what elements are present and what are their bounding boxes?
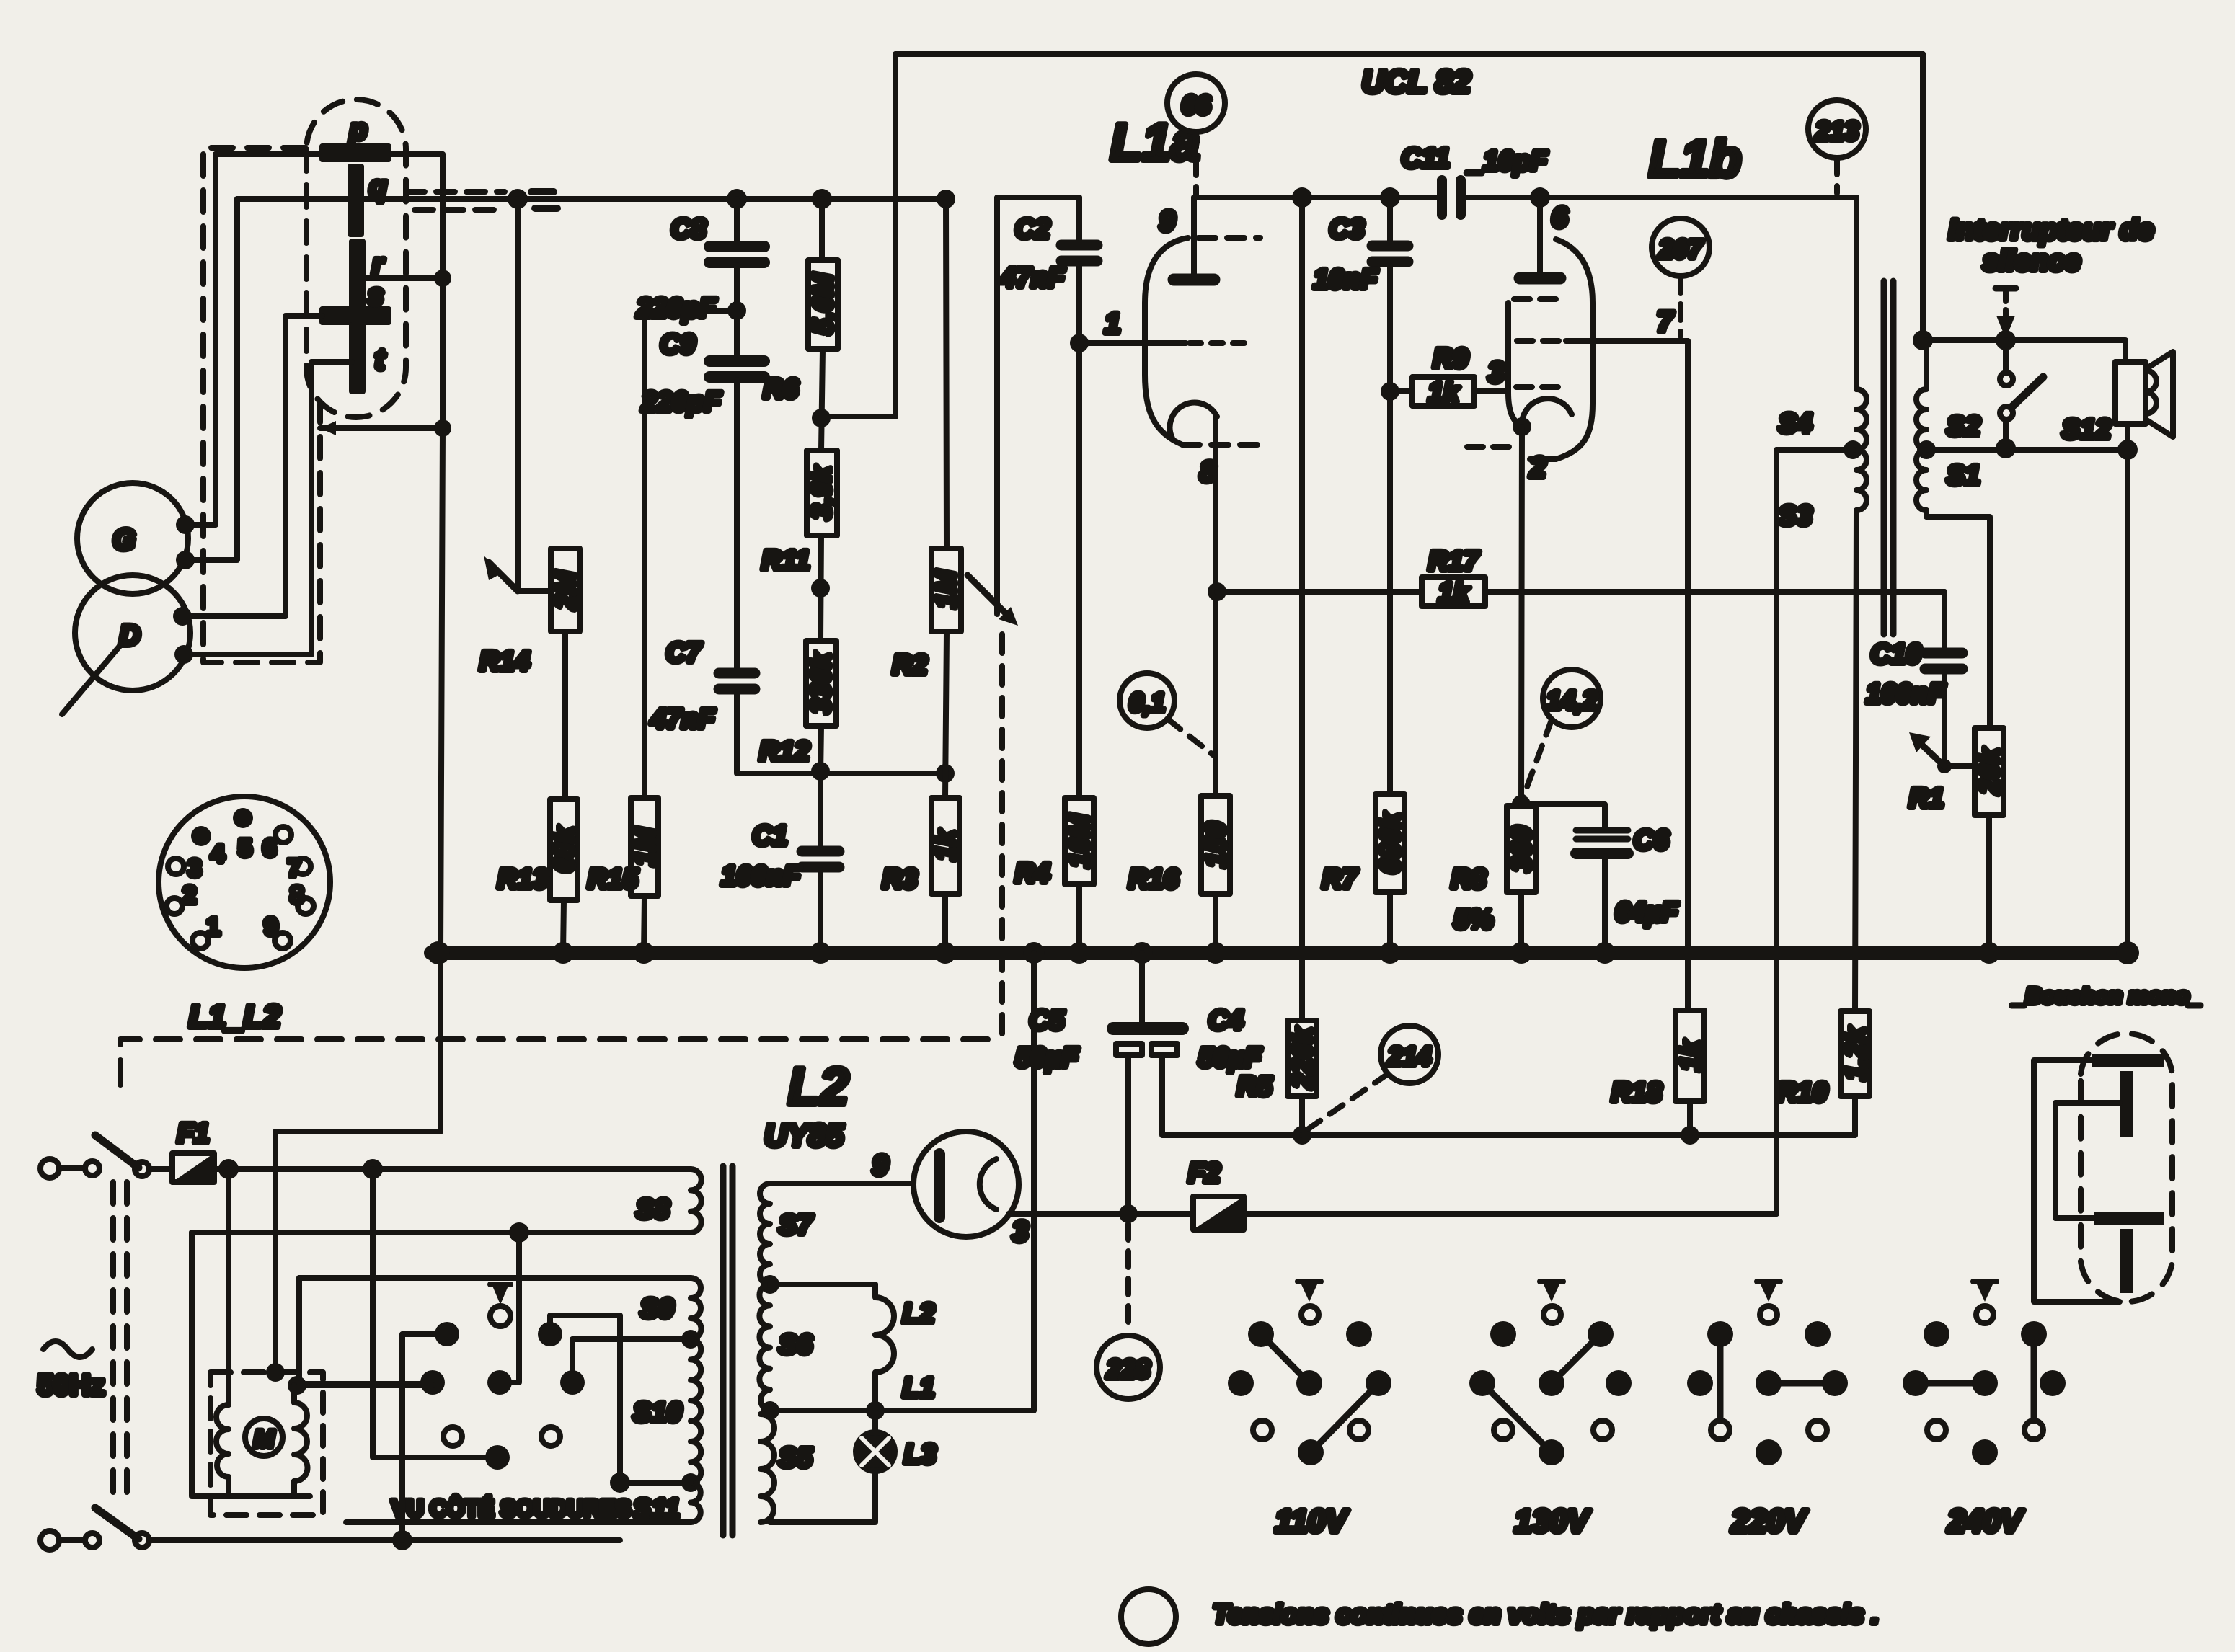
junction H2c-C3 (1380, 187, 1400, 208)
shield arrowhead (320, 421, 336, 435)
capacitor C4 50uF (1151, 1005, 1302, 1135)
junction R5 on B+ line (1293, 1126, 1311, 1145)
svg-text:9: 9 (265, 913, 278, 941)
link pad over to S11 tap (550, 1315, 691, 1483)
wire t lead (184, 362, 352, 654)
svg-text:3: 3 (1012, 1216, 1028, 1248)
wire R5 to C4 line (1299, 1096, 1305, 1135)
cartridge contact s (322, 279, 389, 322)
dashed link R2 to chassis (999, 634, 1005, 1038)
svg-text:8: 8 (291, 881, 304, 909)
jack circle D (75, 575, 190, 690)
junction switch bottom (1996, 438, 2016, 458)
svg-text:C5: C5 (1030, 1005, 1065, 1036)
junction heater return bus (1023, 942, 1045, 964)
svg-text:130V: 130V (1515, 1504, 1591, 1539)
mains cable dashed pair (113, 1182, 127, 1503)
svg-text:C9: C9 (660, 329, 696, 360)
wire S5 bottom (770, 1470, 875, 1522)
svg-text:1,2k: 1,2k (1841, 1026, 1871, 1080)
svg-text:2M: 2M (551, 570, 581, 610)
svg-text:C2: C2 (1015, 214, 1050, 244)
wire ground trunk vertical (441, 154, 443, 953)
svg-text:5%: 5% (1454, 905, 1494, 935)
junction R4 bus (1068, 942, 1090, 964)
svg-text:20k: 20k (1975, 747, 2005, 794)
wire R1 to bus (1986, 815, 1992, 953)
wire B+ top line right vertical (1920, 54, 1926, 340)
svg-text:R15: R15 (588, 864, 639, 894)
svg-text:7: 7 (1657, 306, 1674, 338)
mains switch blade bottom (95, 1508, 138, 1539)
shield dashed left vertical (203, 148, 320, 662)
resistor R17 1k (horizontal) (1217, 546, 1485, 608)
junction R12-C1-R3 (811, 762, 830, 781)
svg-text:S9: S9 (640, 1294, 673, 1324)
svg-text:2: 2 (183, 881, 197, 909)
svg-text:360: 360 (1507, 826, 1537, 871)
wire screen pin7 down (1685, 341, 1691, 1011)
winding S6 (759, 1284, 813, 1411)
wire R14 to R13 (562, 631, 568, 799)
junction R17 tap on cathode (1208, 582, 1226, 601)
winding S2 (1916, 340, 1980, 450)
svg-text:F1: F1 (177, 1119, 209, 1149)
capacitor C3 10nF (1314, 197, 1408, 391)
svg-text:S4: S4 (1779, 409, 1812, 439)
wire silence switch top line (1923, 340, 2125, 362)
voltage selector 110V (1228, 1282, 1391, 1539)
potentiometer R1 20k (1909, 728, 2005, 815)
selector panel pads and links (297, 1233, 691, 1540)
svg-text:0,1: 0,1 (1129, 688, 1165, 717)
motor M (211, 1363, 323, 1515)
svg-text:100nF: 100nF (721, 861, 802, 892)
resistor R6 5,6M (764, 199, 838, 404)
svg-text:64µF: 64µF (1615, 897, 1679, 928)
svg-text:S6: S6 (779, 1330, 813, 1360)
power transformer core (723, 1166, 733, 1535)
junction G top (176, 515, 195, 534)
svg-text:6: 6 (263, 835, 277, 862)
wire R7 to bus (1387, 892, 1393, 953)
svg-text:C7: C7 (666, 638, 702, 668)
svg-text:5: 5 (239, 835, 252, 862)
svg-text:s: s (368, 279, 384, 311)
svg-text:207: 207 (1658, 234, 1704, 264)
mains terminals bottom (40, 1531, 149, 1550)
junction S4-S3 tap (1844, 440, 1862, 459)
wire R2 wiper to C2 line (997, 197, 1079, 614)
link pad to bottom return (402, 1334, 447, 1540)
junction switch top (1996, 330, 2016, 350)
winding S11 (633, 1483, 701, 1524)
wire R12 to C1 junction (820, 726, 821, 776)
link pad to S9 tap (572, 1339, 691, 1382)
winding S7 (secondary top) (760, 1184, 813, 1284)
fuse F2 (1188, 1158, 1244, 1230)
svg-text:C4: C4 (1208, 1005, 1244, 1036)
svg-text:S10: S10 (633, 1398, 682, 1428)
wire feedback from top line H1 (821, 54, 1923, 417)
dashed chassis boundary L1-L2 (120, 1039, 1002, 1085)
wire A (grid input line) (237, 196, 946, 202)
svg-text:_Bouchon mono_: _Bouchon mono_ (2011, 983, 2202, 1008)
junction H2c-R5 (1292, 187, 1312, 208)
cartridge capsule (pickup, dashed envelope) (306, 99, 406, 417)
wire s lead (182, 316, 322, 616)
wire A from G bottom (185, 199, 237, 560)
svg-text:1k: 1k (931, 829, 961, 861)
voltage circle 66 (1167, 74, 1225, 132)
junction pentode plate pin6 (1530, 187, 1550, 208)
lamp L1 (875, 1335, 934, 1411)
cartridge contact t (352, 325, 386, 391)
svg-text:1k: 1k (1428, 378, 1460, 408)
svg-text:7: 7 (288, 855, 301, 882)
fuse F1 (149, 1119, 214, 1182)
ground bus (chassis) (431, 946, 2130, 960)
capacitor C7 47nF (650, 638, 820, 773)
svg-text:C3: C3 (1329, 214, 1365, 244)
wire mains bottom return (149, 1537, 620, 1543)
svg-text:5,6M: 5,6M (808, 272, 838, 334)
svg-text:R10: R10 (1777, 1078, 1828, 1108)
wire R6 to R11 junction (821, 349, 823, 450)
svg-text:240V: 240V (1947, 1504, 2024, 1539)
svg-text:R12: R12 (759, 737, 810, 767)
junction bus left end (427, 941, 450, 964)
svg-text:R8: R8 (1451, 864, 1487, 894)
junction R1 bus (1978, 942, 2000, 964)
resistor R13 68k (497, 799, 580, 900)
wire S8 bottom (192, 1230, 691, 1235)
winding S9 (640, 1278, 701, 1339)
potentiometer R2 1M (volume) (893, 190, 1018, 680)
wire R13 to bus (563, 900, 564, 953)
svg-text:R1: R1 (1909, 783, 1944, 814)
resistor R11 3,9k (762, 450, 837, 576)
svg-text:G: G (112, 524, 135, 556)
svg-text:R6: R6 (764, 374, 799, 404)
voltage circle 0,1 (1120, 673, 1174, 728)
cartridge contact q (350, 166, 386, 234)
svg-text:2: 2 (1529, 452, 1546, 484)
capacitor C11 10pF (series in plate line) (1402, 143, 1549, 215)
junction C8-C9 (727, 301, 746, 320)
svg-text:S12: S12 (2062, 414, 2111, 445)
wire junction to R3 top (820, 771, 945, 776)
wire shield drop from A junction (515, 199, 521, 591)
svg-text:R9: R9 (1433, 344, 1469, 374)
voltage selector 240V (1903, 1282, 2066, 1539)
resistor R16 150 (1128, 796, 1231, 894)
junction S2-S1 tap (1917, 440, 1936, 459)
junction A-C8 (727, 189, 747, 209)
jack circle G (77, 483, 188, 594)
wire S9 top (299, 1275, 691, 1281)
svg-text:C6: C6 (1634, 825, 1669, 856)
svg-text:1k: 1k (1438, 578, 1470, 608)
resistor R15 1M (588, 798, 660, 896)
svg-text:C11: C11 (1402, 143, 1450, 174)
svg-text:1M: 1M (931, 569, 962, 608)
wire S9 top corner down to motor line (299, 1278, 433, 1385)
dashed lead 14,2 (1523, 720, 1552, 799)
svg-text:R7: R7 (1322, 864, 1358, 894)
junction R15 bus (633, 942, 655, 964)
junction S8-selector (509, 1222, 529, 1243)
wire solid trunk to G top (185, 154, 216, 525)
lamp L2 (875, 1284, 934, 1335)
resistor R10 1,2k (1777, 1011, 1871, 1135)
svg-text:10nF: 10nF (1314, 265, 1378, 295)
svg-text:UY85: UY85 (764, 1118, 844, 1153)
svg-text:L1: L1 (903, 1373, 934, 1403)
junction cathode R8 C6 (1512, 795, 1531, 814)
wire UY85 cathode to F2 and S4 tap (1009, 1211, 1776, 1217)
junction S10-S11 tap (681, 1473, 700, 1492)
wire secondary tap to speaker bottom (1926, 447, 2128, 453)
wire shield stub to trunk (320, 425, 443, 431)
junction R13 bus (552, 942, 574, 964)
svg-text:Interrupteur de: Interrupteur de (1949, 214, 2154, 246)
wire heater return (770, 953, 1034, 1411)
wire R2 to R3 (945, 631, 947, 798)
junction C5 bus (1131, 942, 1153, 964)
svg-text:R3: R3 (882, 864, 918, 894)
svg-text:R13: R13 (497, 864, 548, 894)
svg-text:L1a: L1a (1110, 114, 1200, 172)
svg-text:R11: R11 (762, 546, 810, 576)
junction R3 bus (934, 942, 956, 964)
cartridge contact p (322, 114, 389, 159)
switch S12 (interrupteur) (2000, 340, 2111, 448)
junction motor right winding (288, 1376, 306, 1395)
legend circle (1121, 1589, 1176, 1644)
junction R2-R3 (936, 764, 955, 783)
svg-text:t: t (375, 344, 386, 376)
arrow T to switch (1996, 288, 2016, 339)
voltage circle 228 (1097, 1336, 1160, 1399)
junction R6-R11 (feedback entry) (812, 409, 831, 427)
svg-text:6: 6 (1552, 202, 1568, 234)
junction link S11 (610, 1473, 630, 1493)
voltage circle 214 (1381, 1026, 1438, 1083)
svg-text:47nF: 47nF (650, 704, 716, 734)
junction R7 bus (1379, 942, 1401, 964)
junction S6-S5 tap (761, 1401, 779, 1420)
junction D top (173, 607, 192, 626)
svg-text:213: 213 (1815, 116, 1859, 146)
capacitor C6 64uF (electrolytic) (1521, 804, 1679, 953)
mains terminals top (40, 1159, 172, 1178)
junction top line S2 (1913, 330, 1933, 350)
junction R18 on B+ line (1681, 1126, 1699, 1145)
capacitor C1 100nF (721, 776, 839, 953)
junction S7-S6 tap (761, 1275, 779, 1294)
svg-text:UCL 82: UCL 82 (1362, 64, 1471, 99)
wire S4S3 tap to F2 line (1776, 450, 1853, 1214)
dashed lead 0,1 (1168, 719, 1216, 757)
svg-text:9: 9 (1159, 205, 1176, 237)
wire R8 to bus (1518, 892, 1524, 953)
svg-text:S8: S8 (636, 1194, 670, 1225)
svg-text:S7: S7 (779, 1210, 813, 1240)
wire motor feed down (226, 1169, 231, 1405)
junction F1-selector (363, 1159, 383, 1179)
svg-text:220V: 220V (1731, 1504, 1808, 1539)
svg-text:9: 9 (872, 1150, 889, 1181)
svg-text:S5: S5 (779, 1443, 813, 1473)
svg-text:66: 66 (1182, 90, 1211, 120)
wire R5 plate feed (down to R5) (1299, 197, 1305, 1021)
voltage circle 14,2 (1543, 670, 1601, 727)
wire selector feed down (373, 1169, 497, 1457)
wire R3 to bus (942, 894, 948, 953)
svg-text:S2: S2 (1947, 412, 1980, 442)
resistor R9 1k (horizontal) (1390, 344, 1508, 408)
arrow to common (490, 1306, 510, 1326)
output transformer core (1884, 281, 1893, 634)
wire F1 line to primary (214, 1166, 691, 1172)
junction C2 - grid pin1 (1070, 334, 1089, 352)
svg-text:R16: R16 (1128, 864, 1180, 894)
svg-text:silence: silence (1983, 245, 2081, 277)
svg-text:_10pF: _10pF (1466, 146, 1549, 177)
junction t-stub-trunk (434, 419, 451, 437)
junction R16 bus (1205, 942, 1226, 964)
svg-text:50µF: 50µF (1015, 1043, 1079, 1073)
resistor R18 1k (1611, 1011, 1706, 1135)
winding S10 (633, 1339, 701, 1483)
cartridge contact r (352, 241, 385, 308)
svg-text:R5: R5 (1237, 1072, 1273, 1102)
wire R11 to R12 (820, 536, 821, 641)
dashed lead 213 (1834, 159, 1840, 193)
svg-text:220k: 220k (1288, 1026, 1318, 1089)
wire R17 to C10 (1485, 589, 1944, 595)
link S8 junction down to pad (500, 1233, 519, 1382)
tube socket pin diagram (159, 796, 330, 968)
junction C5 on HT line (1119, 1204, 1138, 1223)
wire speaker return down (2125, 424, 2130, 953)
svg-text:10M: 10M (1065, 814, 1095, 868)
potentiometer R14 2M (479, 549, 581, 677)
resistor R4 10M (1015, 798, 1095, 889)
capacitor C8 220pF (636, 199, 764, 324)
lamp L3 (dial) (856, 1411, 936, 1471)
junction A-trunk (508, 189, 528, 209)
wire C2 down to R4 (1076, 343, 1082, 798)
svg-text:S3: S3 (1779, 501, 1812, 531)
resistor R8 360 5% (1451, 806, 1537, 935)
wire B+ filtered line (1302, 1132, 1855, 1138)
wire motor right top lead (291, 1385, 297, 1403)
junction R8 bus (1510, 942, 1532, 964)
shield dashed stubs right of capsule (406, 192, 505, 210)
capacitor C5/C4 common lead (1139, 953, 1145, 1023)
svg-text:F2: F2 (1188, 1158, 1220, 1189)
slash through D (62, 644, 121, 714)
wire plate to output transformer (1540, 195, 1856, 200)
svg-text:50µF: 50µF (1198, 1043, 1262, 1073)
svg-text:150: 150 (1201, 822, 1231, 867)
panel bottom edge (346, 1519, 691, 1525)
svg-text:Tensions continues en volts pa: Tensions continues en volts par rapport … (1213, 1599, 1879, 1629)
svg-text:R4: R4 (1015, 858, 1050, 889)
junction speaker return corner (2117, 440, 2138, 460)
svg-text:214: 214 (1387, 1042, 1431, 1071)
voltage selector 130V (1469, 1282, 1632, 1539)
resistor R12 330k (759, 641, 836, 767)
resistor R3 1k (882, 798, 961, 894)
pentode L1b tube (1467, 197, 1688, 804)
svg-text:R18: R18 (1611, 1078, 1663, 1108)
speaker (2115, 352, 2173, 437)
winding S4 (1779, 197, 1867, 450)
svg-text:R14: R14 (479, 647, 530, 677)
junction A-R6 (812, 189, 832, 209)
junction bus right end (2116, 941, 2139, 964)
svg-text:8: 8 (1200, 456, 1216, 488)
svg-text:3: 3 (188, 855, 202, 882)
junction G bottom (176, 551, 195, 569)
junction bottom return (392, 1530, 412, 1550)
wire C8C9 junction to R15 (645, 311, 737, 798)
svg-text:L3: L3 (904, 1439, 936, 1470)
svg-text:100nF: 100nF (1866, 679, 1947, 709)
svg-text:330k: 330k (806, 652, 836, 714)
AC symbol 50Hz (37, 1341, 105, 1401)
capacitor C5 50uF (1015, 1005, 1182, 1214)
svg-text:68k: 68k (549, 825, 580, 872)
wire trunk below bus to motor (275, 953, 441, 1372)
wire R4 to bus (1076, 884, 1082, 953)
svg-text:C10: C10 (1871, 639, 1921, 670)
rectifier UY85 (770, 1132, 1028, 1248)
wire r lead (363, 275, 443, 281)
wire p lead (216, 151, 443, 157)
svg-text:680k: 680k (1376, 812, 1406, 874)
svg-text:228: 228 (1106, 1354, 1150, 1384)
svg-text:L1_L2: L1_L2 (189, 999, 281, 1034)
pads (435, 1322, 459, 1346)
mains switch blade top (95, 1135, 138, 1168)
wire C3 node to R7 (1387, 391, 1393, 794)
svg-text:p: p (349, 114, 367, 146)
svg-text:50Hz: 50Hz (37, 1369, 105, 1401)
chassis mark near junction (531, 192, 557, 208)
svg-text:R17: R17 (1428, 546, 1480, 577)
svg-text:3,9k: 3,9k (807, 465, 837, 520)
voltage selector 220V (1687, 1282, 1848, 1539)
svg-text:1M: 1M (630, 827, 660, 866)
link pad to motor (297, 1381, 433, 1387)
wire S1 bottom to R1 (1926, 510, 1990, 728)
junction heater-lamp (866, 1401, 885, 1420)
svg-text:C8: C8 (671, 214, 707, 244)
winding S1 (1916, 450, 1980, 510)
svg-text:4: 4 (211, 840, 225, 868)
dashed lead 207 (1678, 277, 1683, 336)
wire plate line H2c (1194, 195, 1444, 200)
svg-text:L1b: L1b (1649, 130, 1741, 188)
svg-text:14,2: 14,2 (1546, 685, 1597, 715)
resistor R5 220k (1237, 1021, 1318, 1102)
dashed lead 214 (1309, 1074, 1388, 1129)
wire R15 to bus (644, 896, 645, 953)
